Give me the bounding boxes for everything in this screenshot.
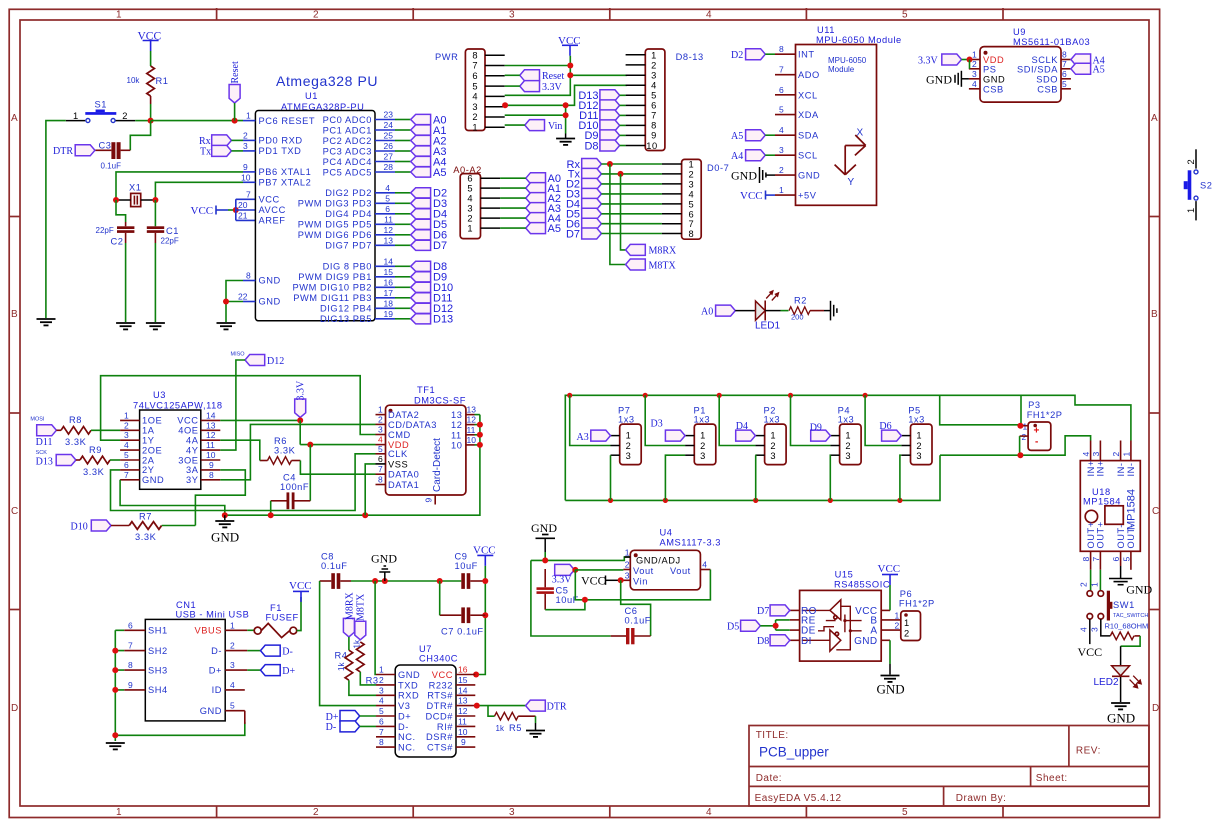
wires D0-7 flags to pins bbox=[601, 164, 662, 234]
svg-text:3.3K: 3.3K bbox=[83, 467, 105, 477]
connector P4 bbox=[830, 406, 861, 465]
svg-text:11: 11 bbox=[384, 214, 393, 224]
svg-text:5: 5 bbox=[378, 444, 383, 454]
wire D12/MISO to 4Y bbox=[220, 360, 245, 450]
svg-text:2: 2 bbox=[243, 131, 248, 141]
svg-text:U15: U15 bbox=[835, 570, 854, 580]
wire RESET to C3 branch bbox=[130, 121, 150, 151]
svg-text:7: 7 bbox=[779, 65, 784, 75]
svg-text:1: 1 bbox=[472, 123, 478, 133]
connector P7 bbox=[611, 406, 642, 465]
svg-text:3: 3 bbox=[700, 451, 706, 461]
svg-text:2: 2 bbox=[1078, 582, 1088, 587]
svg-text:3: 3 bbox=[770, 451, 776, 461]
svg-text:26: 26 bbox=[384, 141, 394, 151]
wire P2 pin3 bbox=[754, 455, 756, 500]
U7 pin numbers bbox=[379, 665, 468, 748]
resistor R5 bbox=[495, 712, 536, 733]
svg-text:14: 14 bbox=[206, 410, 216, 420]
svg-text:R9: R9 bbox=[89, 445, 102, 455]
net flag D10 bbox=[71, 520, 112, 533]
connector CN1 USB - Mini USB bbox=[145, 600, 249, 721]
svg-text:12: 12 bbox=[467, 415, 477, 425]
svg-text:DTR: DTR bbox=[547, 701, 567, 712]
svg-text:4: 4 bbox=[385, 183, 390, 193]
svg-text:RTS#: RTS# bbox=[427, 691, 453, 701]
svg-text:GND: GND bbox=[531, 521, 557, 535]
power flag VCC (R1 top) bbox=[138, 31, 162, 52]
resistor R3 bbox=[353, 639, 379, 685]
svg-text:4: 4 bbox=[467, 194, 473, 204]
resistor R8 bbox=[56, 415, 91, 447]
svg-text:R8: R8 bbox=[69, 415, 82, 425]
U9 left pins bbox=[969, 60, 980, 89]
svg-text:5: 5 bbox=[779, 105, 784, 115]
svg-text:20: 20 bbox=[238, 200, 248, 210]
svg-text:4: 4 bbox=[472, 92, 478, 102]
wire GND pins 8/22 bbox=[226, 281, 243, 323]
power flag VCC (F1) bbox=[289, 580, 312, 602]
junction SH2 bbox=[112, 648, 118, 654]
svg-text:22: 22 bbox=[238, 292, 248, 302]
svg-text:1: 1 bbox=[116, 807, 122, 818]
svg-text:D7: D7 bbox=[433, 240, 447, 252]
svg-text:5: 5 bbox=[902, 807, 908, 818]
svg-text:SH1: SH1 bbox=[148, 626, 168, 636]
wire R6 left to 4A row bbox=[220, 440, 259, 460]
svg-text:6: 6 bbox=[1111, 557, 1121, 562]
svg-text:6: 6 bbox=[124, 460, 129, 470]
net flag D12 (MISO) bbox=[231, 352, 285, 368]
svg-text:4: 4 bbox=[1081, 452, 1091, 457]
svg-text:7: 7 bbox=[128, 641, 133, 651]
junction X1 left bbox=[113, 197, 119, 203]
svg-text:27: 27 bbox=[384, 152, 394, 162]
connector D0-7 bbox=[662, 159, 729, 239]
svg-text:9: 9 bbox=[243, 162, 248, 172]
svg-text:7: 7 bbox=[689, 219, 695, 229]
svg-text:C: C bbox=[11, 506, 18, 517]
svg-text:DIG4 PD4: DIG4 PD4 bbox=[325, 209, 372, 219]
U11 pin numbers bbox=[779, 44, 784, 195]
ground (PWR) bbox=[556, 139, 575, 145]
svg-text:VCC: VCC bbox=[177, 416, 198, 426]
svg-text:DCD#: DCD# bbox=[425, 711, 453, 721]
junction AVCC bbox=[233, 207, 239, 213]
svg-text:D+: D+ bbox=[282, 666, 295, 677]
svg-text:D5: D5 bbox=[727, 622, 739, 633]
svg-text:2: 2 bbox=[472, 112, 478, 122]
svg-text:FUSEF: FUSEF bbox=[266, 613, 299, 623]
wire U15 GND bbox=[889, 640, 891, 664]
net flag M8TX bbox=[626, 259, 677, 271]
svg-text:8: 8 bbox=[779, 44, 784, 54]
svg-text:2: 2 bbox=[313, 807, 319, 818]
svg-text:OUT-: OUT- bbox=[1116, 524, 1126, 548]
svg-text:C7 0.1uF: C7 0.1uF bbox=[441, 627, 484, 637]
svg-text:S1: S1 bbox=[95, 100, 107, 110]
svg-text:3: 3 bbox=[689, 179, 695, 189]
net flag 3.3V (PWR) bbox=[505, 81, 563, 93]
net flags A0-A5 (A0-A2 conn) bbox=[500, 173, 561, 235]
svg-text:2: 2 bbox=[845, 441, 851, 451]
svg-text:1: 1 bbox=[230, 620, 235, 630]
svg-text:PWM DIG10 PB2: PWM DIG10 PB2 bbox=[293, 283, 372, 293]
wire SW1 pin3 to R10 bbox=[1101, 619, 1111, 636]
svg-text:1: 1 bbox=[625, 548, 630, 558]
svg-text:TXD: TXD bbox=[398, 680, 418, 690]
svg-text:REV:: REV: bbox=[1076, 746, 1101, 757]
junction 3.3V flag bbox=[297, 417, 303, 423]
module U11 MPU-6050 bbox=[796, 25, 902, 205]
svg-text:EasyEDA V5.4.12: EasyEDA V5.4.12 bbox=[755, 793, 842, 804]
TF1 left pins bbox=[376, 415, 386, 485]
svg-text:3: 3 bbox=[1091, 452, 1101, 457]
svg-text:X1: X1 bbox=[129, 183, 141, 193]
svg-text:2OE: 2OE bbox=[142, 445, 162, 455]
CN1 pin names bbox=[148, 626, 222, 716]
svg-text:10uF: 10uF bbox=[455, 561, 478, 571]
svg-text:1: 1 bbox=[700, 431, 706, 441]
wire P7 pin3 bbox=[610, 455, 612, 500]
wire R6 right to DATA0 bbox=[300, 461, 375, 475]
svg-text:3: 3 bbox=[243, 141, 248, 151]
wire 2Y to TF1 CLK (long) bbox=[111, 454, 376, 511]
wire C8 left to V3 bbox=[320, 581, 376, 706]
svg-text:6: 6 bbox=[472, 71, 478, 81]
svg-text:X: X bbox=[857, 128, 864, 139]
svg-text:5: 5 bbox=[902, 10, 908, 21]
wire VCC/AVCC/AREF vertical bbox=[236, 199, 256, 220]
svg-text:2: 2 bbox=[1186, 159, 1196, 165]
module U18 MP1584 bbox=[1080, 461, 1140, 552]
svg-text:10: 10 bbox=[467, 435, 477, 445]
svg-text:CD/DATA3: CD/DATA3 bbox=[388, 420, 437, 430]
junction dots top bus bbox=[567, 393, 868, 398]
svg-text:14: 14 bbox=[458, 685, 468, 695]
svg-text:MISO: MISO bbox=[231, 352, 246, 358]
wire CN1 GND pin5 bbox=[244, 711, 246, 724]
junction D8-13 pin3 bbox=[567, 72, 573, 78]
svg-text:PB7 XTAL2: PB7 XTAL2 bbox=[259, 178, 312, 188]
svg-text:IN+: IN+ bbox=[1096, 460, 1106, 476]
junction U7 pin16 bbox=[473, 672, 479, 678]
power flag VCC (U15) bbox=[878, 563, 901, 585]
wire C8 right / GND bus (U7) bbox=[351, 580, 461, 582]
wire F1 to VCC bbox=[297, 597, 301, 631]
svg-text:LED1: LED1 bbox=[755, 321, 780, 332]
svg-text:GND: GND bbox=[398, 670, 420, 680]
svg-text:23: 23 bbox=[384, 110, 394, 120]
junction P3 pin1 bbox=[1017, 423, 1023, 429]
svg-text:3: 3 bbox=[972, 69, 977, 79]
svg-text:5: 5 bbox=[689, 199, 695, 209]
wire VCC vertical (PWR) bbox=[505, 56, 627, 96]
svg-text:3.3V: 3.3V bbox=[552, 575, 573, 586]
junction TF1 pin12 bbox=[477, 422, 483, 428]
svg-text:3: 3 bbox=[467, 204, 473, 214]
net flag 3.3V (U9) bbox=[918, 54, 969, 66]
ground (CN1) bbox=[106, 743, 125, 749]
net flag D+ (CN1) bbox=[247, 665, 295, 677]
svg-text:PC0 ADC0: PC0 ADC0 bbox=[323, 115, 372, 125]
svg-text:4: 4 bbox=[651, 81, 657, 91]
svg-text:C4: C4 bbox=[283, 473, 296, 483]
svg-text:A0: A0 bbox=[701, 306, 713, 317]
svg-text:17: 17 bbox=[384, 288, 394, 298]
svg-text:Vin: Vin bbox=[548, 121, 562, 132]
svg-text:CMD: CMD bbox=[388, 430, 411, 440]
svg-text:13: 13 bbox=[384, 235, 394, 245]
svg-text:Atmega328 PU: Atmega328 PU bbox=[276, 73, 378, 89]
svg-text:3.3V: 3.3V bbox=[542, 82, 563, 93]
wire PWR pin3/pin2 to ground bbox=[505, 105, 566, 133]
connector P6 FH1*2P bbox=[895, 589, 935, 641]
capacitor C9 bbox=[455, 552, 486, 589]
svg-text:GND: GND bbox=[259, 276, 281, 286]
resistor R6 bbox=[260, 436, 301, 464]
svg-text:1: 1 bbox=[845, 431, 851, 441]
CN1 right pins bbox=[225, 630, 247, 710]
svg-text:D-: D- bbox=[326, 722, 337, 733]
svg-text:USB - Mini USB: USB - Mini USB bbox=[176, 610, 250, 620]
capacitor C5 bbox=[537, 569, 579, 610]
svg-text:0.1uF: 0.1uF bbox=[101, 162, 122, 171]
svg-text:PWM DIG9 PB1: PWM DIG9 PB1 bbox=[298, 272, 372, 282]
U3 right pins bbox=[201, 420, 221, 479]
U15 left pins bbox=[790, 610, 800, 640]
svg-text:Vin: Vin bbox=[633, 576, 648, 586]
svg-text:CLK: CLK bbox=[388, 449, 408, 459]
wire S1 right to junction bbox=[135, 120, 150, 122]
junction PWR pin2 bbox=[563, 112, 569, 118]
ground (LED2) bbox=[1107, 703, 1135, 726]
svg-text:5: 5 bbox=[467, 184, 473, 194]
IC U3 74LVC125APW,118 bbox=[133, 390, 223, 489]
svg-text:D8-13: D8-13 bbox=[676, 52, 704, 62]
junction 3.3V net corner bbox=[582, 597, 588, 603]
svg-text:D+: D+ bbox=[209, 665, 222, 675]
svg-text:C6: C6 bbox=[625, 606, 638, 616]
junction (R1/S1/reset) bbox=[148, 118, 154, 124]
svg-text:R6: R6 bbox=[274, 436, 287, 446]
svg-text:SCL: SCL bbox=[798, 151, 818, 161]
ground (U18 pin6) bbox=[1109, 566, 1153, 597]
net flag D2 (U11) bbox=[731, 49, 775, 61]
svg-text:GND: GND bbox=[798, 171, 820, 181]
wire R4 to RXD bbox=[349, 680, 376, 695]
svg-text:3: 3 bbox=[626, 451, 632, 461]
svg-text:1Y: 1Y bbox=[142, 436, 154, 446]
svg-text:4: 4 bbox=[124, 440, 129, 450]
svg-text:OUT+: OUT+ bbox=[1096, 521, 1106, 548]
svg-text:D10: D10 bbox=[71, 522, 88, 533]
svg-text:3.3K: 3.3K bbox=[135, 532, 157, 542]
svg-text:PC3 ADC3: PC3 ADC3 bbox=[323, 146, 372, 156]
net flag D8 (U15) bbox=[757, 635, 790, 647]
svg-text:7: 7 bbox=[472, 61, 478, 71]
svg-text:DIG13 PB5: DIG13 PB5 bbox=[320, 314, 372, 324]
IC U15 RS485SOIC bbox=[800, 570, 891, 662]
connector D8-13 bbox=[626, 49, 704, 151]
svg-text:DIG 8 PB0: DIG 8 PB0 bbox=[323, 262, 372, 272]
ground bbox=[37, 319, 56, 325]
svg-text:PD1 TXD: PD1 TXD bbox=[259, 146, 302, 156]
svg-text:A5: A5 bbox=[1093, 65, 1105, 76]
ground flag (U7 top) bbox=[371, 552, 397, 582]
U7 right pins bbox=[456, 675, 475, 748]
svg-text:1x3: 1x3 bbox=[838, 415, 855, 425]
svg-text:D-: D- bbox=[211, 646, 222, 656]
svg-text:3: 3 bbox=[509, 807, 515, 818]
svg-text:SH4: SH4 bbox=[148, 685, 168, 695]
svg-text:3: 3 bbox=[472, 102, 478, 112]
junction GND bus left bbox=[222, 512, 228, 518]
svg-text:1: 1 bbox=[770, 431, 776, 441]
svg-text:IN-: IN- bbox=[1126, 462, 1136, 476]
svg-text:IN+: IN+ bbox=[1086, 460, 1096, 476]
title block bbox=[749, 726, 1149, 807]
svg-text:VCC: VCC bbox=[432, 670, 453, 680]
svg-text:Date:: Date: bbox=[756, 773, 782, 784]
svg-text:C9: C9 bbox=[455, 552, 468, 562]
svg-text:IN-: IN- bbox=[1116, 462, 1126, 476]
wire CN1 shield pins to ground bbox=[115, 630, 245, 741]
U1 left pin names bbox=[259, 116, 316, 307]
ground flag GND (U11) bbox=[731, 167, 775, 183]
svg-text:1x3: 1x3 bbox=[908, 415, 925, 425]
junction GND pin22 bbox=[223, 299, 229, 305]
wire P5 pin3 bbox=[900, 455, 901, 500]
svg-text:XDA: XDA bbox=[798, 110, 819, 120]
svg-text:2: 2 bbox=[313, 10, 319, 21]
wire C1 to ground bbox=[154, 243, 156, 322]
svg-text:VCC: VCC bbox=[259, 195, 280, 205]
wire C5 bottom to 3.3V net bbox=[545, 600, 585, 610]
capacitor C6 bbox=[611, 606, 651, 644]
ground bbox=[217, 323, 236, 329]
svg-text:2: 2 bbox=[467, 214, 473, 224]
svg-text:3.3K: 3.3K bbox=[274, 446, 296, 456]
svg-text:4: 4 bbox=[706, 10, 712, 21]
ground flag GND (U9) bbox=[926, 71, 969, 87]
svg-text:8: 8 bbox=[1081, 557, 1091, 562]
svg-text:PWM DIG5 PD5: PWM DIG5 PD5 bbox=[298, 220, 372, 230]
U3 pin numbers bbox=[124, 410, 216, 479]
svg-text:PB6 XTAL1: PB6 XTAL1 bbox=[259, 167, 312, 177]
wire VDD to C4 bbox=[309, 445, 311, 501]
svg-text:12: 12 bbox=[206, 430, 216, 440]
svg-text:Vout: Vout bbox=[633, 566, 654, 576]
svg-text:C5: C5 bbox=[556, 586, 569, 596]
fuse F1 FUSEF bbox=[247, 603, 298, 638]
svg-text:9: 9 bbox=[424, 498, 434, 503]
resistor R2 bbox=[789, 296, 824, 322]
wire VCC vertical to U7 pin16 bbox=[476, 566, 485, 675]
net label VCC (U11 +5V) bbox=[740, 190, 775, 202]
junction C9 right bbox=[482, 578, 488, 584]
connector PWR bbox=[435, 49, 505, 133]
junction TF1 pin10 bbox=[477, 442, 483, 448]
svg-text:GND: GND bbox=[983, 74, 1005, 84]
svg-text:-: - bbox=[1035, 437, 1038, 448]
svg-text:8: 8 bbox=[246, 271, 251, 281]
svg-text:B: B bbox=[1151, 309, 1158, 320]
svg-text:DIG12 PB4: DIG12 PB4 bbox=[320, 304, 372, 314]
U7 left pins bbox=[376, 675, 395, 748]
net label VCC (U4 Vin) black bbox=[581, 574, 621, 588]
net flag M8RX (U7, vertical) bbox=[343, 591, 355, 636]
svg-text:3: 3 bbox=[509, 10, 515, 21]
capacitor C7 bbox=[440, 607, 486, 636]
net flag D4 (P2) bbox=[736, 421, 756, 441]
svg-text:U11: U11 bbox=[817, 25, 835, 35]
svg-text:3: 3 bbox=[378, 425, 383, 435]
wire R2 to ground bbox=[824, 310, 831, 312]
junction PWR pin7 bbox=[567, 63, 573, 69]
svg-text:A5: A5 bbox=[433, 167, 446, 179]
svg-text:4: 4 bbox=[689, 189, 695, 199]
svg-text:U3: U3 bbox=[153, 390, 166, 400]
svg-text:16: 16 bbox=[384, 277, 394, 287]
svg-text:C3: C3 bbox=[99, 141, 112, 151]
junction (Reset flag) bbox=[232, 118, 238, 124]
svg-text:2: 2 bbox=[770, 441, 776, 451]
svg-text:1: 1 bbox=[116, 10, 122, 21]
wire C7 left up to bus bbox=[439, 581, 441, 615]
svg-text:6: 6 bbox=[779, 85, 784, 95]
net flag D9 (P4) bbox=[810, 422, 831, 441]
junction VDD row bbox=[307, 442, 313, 448]
svg-text:2: 2 bbox=[230, 641, 235, 651]
svg-text:GND/ADJ: GND/ADJ bbox=[636, 556, 681, 566]
svg-text:FH1*2P: FH1*2P bbox=[899, 599, 935, 609]
svg-text:Drawn By:: Drawn By: bbox=[956, 793, 1007, 804]
svg-text:A5: A5 bbox=[548, 223, 561, 235]
svg-text:U4: U4 bbox=[660, 528, 673, 538]
wire GND to U4 pin1 bbox=[531, 552, 630, 636]
U18 bottom pins bbox=[1091, 551, 1131, 570]
svg-text:5: 5 bbox=[1121, 557, 1131, 562]
svg-text:ADO: ADO bbox=[798, 70, 820, 80]
junction U7 gnd vertical bbox=[372, 578, 378, 584]
svg-text:RI#: RI# bbox=[437, 722, 453, 732]
net flag D6 (P5) bbox=[879, 421, 901, 441]
svg-text:Card-Detect: Card-Detect bbox=[432, 438, 443, 492]
svg-text:A: A bbox=[11, 113, 18, 124]
TF1 pin9 bbox=[424, 495, 436, 505]
svg-text:11: 11 bbox=[451, 430, 462, 440]
svg-text:12: 12 bbox=[451, 420, 462, 430]
svg-text:SDO: SDO bbox=[1036, 74, 1058, 84]
svg-text:CH340C: CH340C bbox=[419, 654, 458, 664]
svg-text:14: 14 bbox=[384, 256, 394, 266]
svg-text:11: 11 bbox=[458, 716, 467, 726]
junction gnd flag bbox=[382, 578, 388, 584]
svg-text:VCC: VCC bbox=[289, 580, 312, 592]
svg-text:PWR: PWR bbox=[435, 52, 458, 62]
svg-text:3: 3 bbox=[230, 660, 235, 670]
capacitor C1 bbox=[147, 226, 179, 246]
wire X1 left to C2 bbox=[116, 200, 126, 222]
svg-text:2: 2 bbox=[625, 560, 630, 570]
svg-text:8: 8 bbox=[128, 660, 133, 670]
svg-text:LED2: LED2 bbox=[1094, 677, 1119, 688]
net flag D13 (SCK) bbox=[36, 450, 76, 467]
svg-text:2: 2 bbox=[916, 441, 922, 451]
svg-text:1: 1 bbox=[378, 405, 383, 415]
svg-text:D13: D13 bbox=[433, 314, 453, 326]
